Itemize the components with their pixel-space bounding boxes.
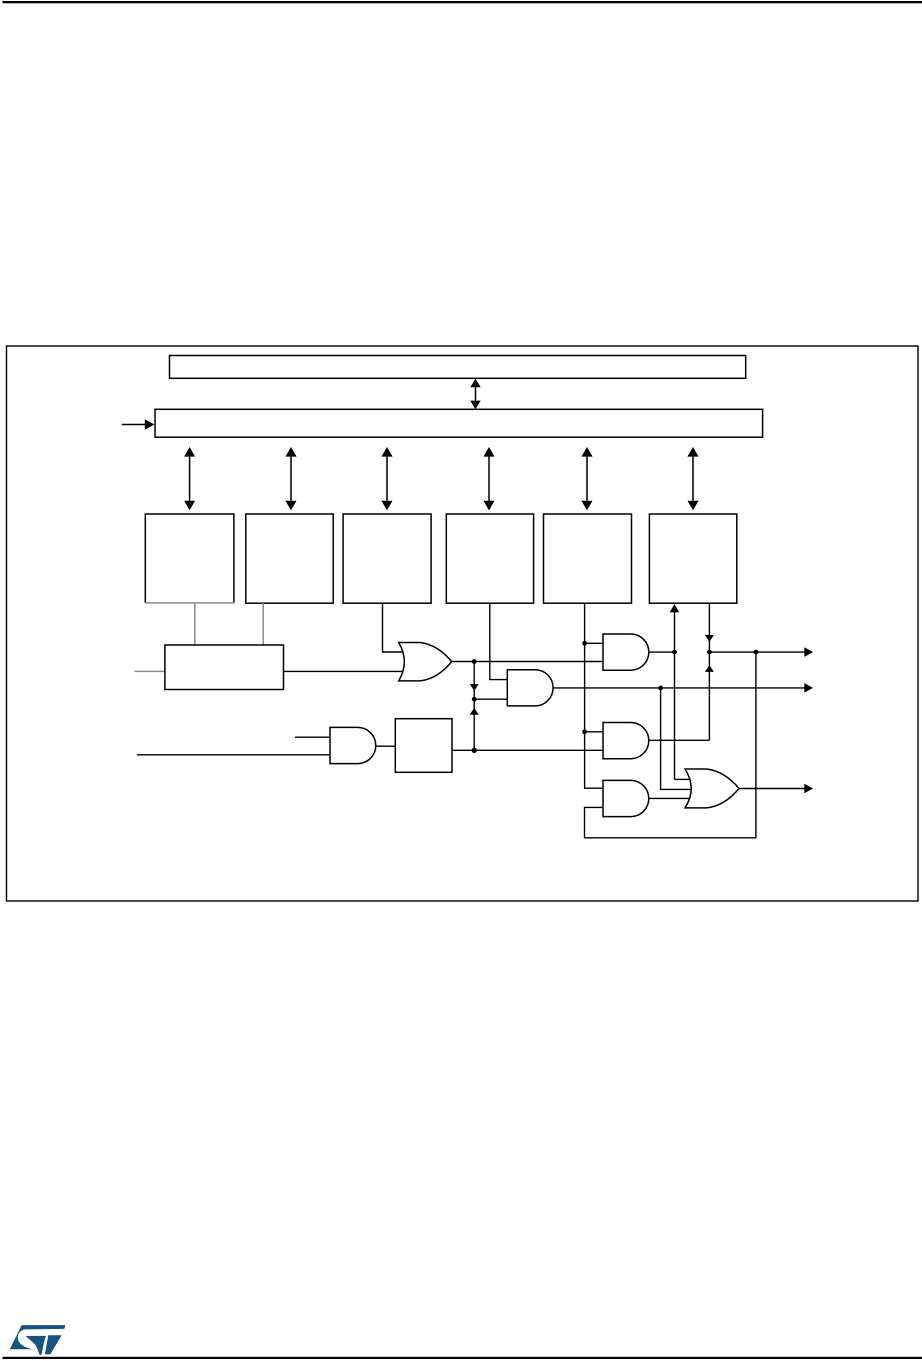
gray wire port2 to control register (262, 603, 264, 645)
wire U7 output to edge-detect block (376, 745, 396, 747)
port arrow 6 (688, 447, 699, 510)
feedback wire down and along bottom to U5 lower input (585, 652, 756, 838)
bus input arrow into BUS2 (122, 419, 155, 430)
wire stub to U7 upper input (295, 736, 331, 738)
output arrow 1 (804, 647, 813, 657)
wire edge-detect output to U4 lower input (452, 749, 604, 751)
node feedback tap on first output (754, 650, 759, 655)
footer rule of page (3, 1357, 922, 1359)
and-gate U7 (330, 727, 376, 763)
wire port5 drop feeding U3 U4 U5 (585, 603, 604, 788)
port arrow 1 (184, 447, 195, 510)
or-gate U1 (399, 643, 452, 681)
port block 1 (145, 514, 234, 603)
port arrow 3 (382, 447, 393, 510)
node on edge-detect output wire (472, 748, 477, 753)
wire register output to or-gate U1 (284, 670, 404, 672)
wire first output line (709, 651, 805, 653)
and-gate U2 (507, 670, 553, 706)
wire U2 output to second output arrow (553, 687, 805, 689)
port block 6 (649, 514, 736, 603)
bus BUS1 (upper data bus) (170, 356, 746, 379)
output arrow 2 (804, 683, 813, 693)
port arrow 2 (286, 447, 297, 510)
node U3 upper input tap (582, 641, 587, 646)
gray wire port1 to control register (194, 603, 196, 645)
node U4 upper input tap (582, 729, 587, 734)
and-gate U4 (603, 723, 649, 759)
or-gate U6 (685, 769, 739, 808)
port arrow 5 (582, 447, 593, 510)
and-gate U3 (603, 634, 649, 670)
output arrow 3 (804, 784, 813, 794)
wire U5 output to or-gate U6 (649, 797, 690, 799)
wire U3 output to port6 rise wire (649, 651, 675, 653)
wire U4 output rising to first output junction (649, 739, 710, 741)
figure frame (7, 346, 919, 901)
node first output junction (707, 650, 712, 655)
wire rising into port block 6 with up arrowhead (670, 604, 691, 779)
wire U1 output to and-gate U3 (452, 661, 604, 663)
wire U2 tap down to or-gate U6 middle input (661, 688, 692, 790)
edge-detect block (395, 719, 452, 773)
wire port3 drop to or-gate U1 (383, 603, 404, 652)
vertical wire from U1 output node down (473, 662, 475, 751)
wire port4 drop to U2 upper input (490, 603, 508, 679)
port block 5 (544, 514, 632, 603)
wire from port block 6 down with down arrowhead (705, 603, 714, 740)
port block 3 (343, 514, 431, 603)
node joining U2 lower input (472, 697, 477, 702)
port arrow 4 (484, 447, 495, 510)
node on port6 rise wire (672, 650, 677, 655)
bidirectional arrow between BUS1 and BUS2 (470, 379, 480, 410)
gray bottom edge of port block 1 (145, 602, 234, 604)
long wire to U7 lower input (137, 754, 331, 756)
down arrowhead on vertical wire (470, 684, 479, 691)
wire tap to U4 upper input (585, 731, 604, 733)
control register (165, 645, 284, 690)
port block 2 (246, 514, 333, 603)
node at U1 output (472, 659, 477, 664)
wire node to and-gate U2 lower input (474, 698, 508, 700)
gray input stub into control register (135, 670, 165, 672)
bus BUS2 (lower peripheral bus) (155, 409, 763, 437)
wire tap to U3 upper input (585, 642, 604, 644)
header rule of page (3, 1, 922, 3)
and-gate U5 (603, 780, 649, 816)
wire U6 output to third output arrow (739, 788, 806, 790)
up arrowhead on vertical wire (470, 708, 479, 715)
node tapping U2 output for or-gate U6 (658, 686, 663, 691)
port block 4 (446, 514, 533, 603)
